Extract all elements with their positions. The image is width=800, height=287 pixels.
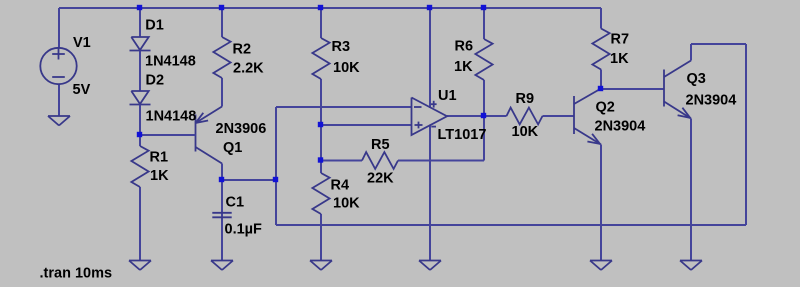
svg-text:C1: C1	[226, 194, 245, 210]
svg-text:R4: R4	[331, 177, 350, 193]
svg-text:R5: R5	[371, 137, 390, 153]
svg-text:R7: R7	[611, 31, 630, 47]
svg-text:22K: 22K	[367, 170, 394, 186]
svg-text:2.2K: 2.2K	[233, 60, 264, 76]
svg-text:R9: R9	[516, 91, 535, 107]
svg-text:1K: 1K	[150, 168, 169, 184]
svg-text:5V: 5V	[73, 82, 91, 98]
svg-text:Q3: Q3	[687, 71, 706, 87]
svg-text:0.1µF: 0.1µF	[225, 221, 263, 237]
svg-text:1K: 1K	[610, 51, 629, 67]
svg-text:2N3906: 2N3906	[216, 121, 267, 137]
svg-text:10K: 10K	[512, 124, 539, 140]
svg-text:1N4148: 1N4148	[145, 53, 196, 69]
svg-text:10K: 10K	[333, 60, 360, 76]
svg-text:Q2: Q2	[596, 99, 615, 115]
svg-text:D1: D1	[145, 17, 164, 33]
svg-text:U1: U1	[438, 88, 457, 104]
svg-text:R2: R2	[233, 41, 252, 57]
svg-text:10K: 10K	[333, 195, 360, 211]
svg-text:Q1: Q1	[223, 140, 242, 156]
svg-text:1K: 1K	[454, 59, 473, 75]
svg-text:LT1017: LT1017	[438, 127, 487, 143]
svg-text:V1: V1	[73, 35, 91, 51]
svg-text:R3: R3	[332, 39, 351, 55]
svg-text:.tran 10ms: .tran 10ms	[40, 265, 113, 281]
svg-text:2N3904: 2N3904	[686, 92, 737, 108]
svg-text:1N4148: 1N4148	[146, 108, 197, 124]
svg-text:D2: D2	[146, 72, 165, 88]
svg-text:R6: R6	[455, 38, 474, 54]
svg-text:R1: R1	[150, 149, 169, 165]
svg-text:2N3904: 2N3904	[595, 118, 646, 134]
